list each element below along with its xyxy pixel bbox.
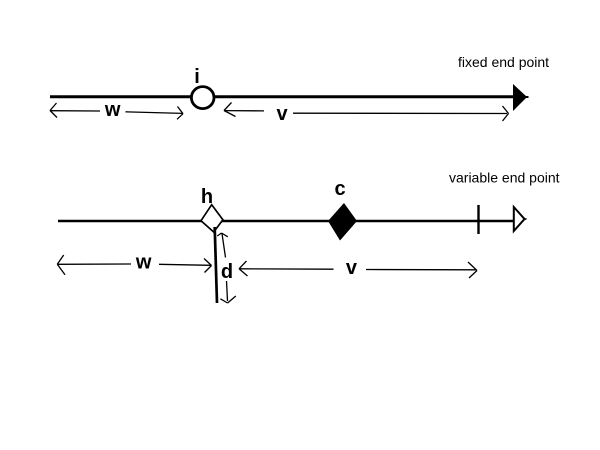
- svg-text:i: i: [194, 66, 200, 88]
- svg-text:c: c: [334, 178, 345, 200]
- svg-text:variable end point: variable end point: [449, 170, 560, 186]
- svg-text:v: v: [276, 103, 288, 125]
- svg-text:fixed end point: fixed end point: [458, 54, 549, 70]
- svg-text:v: v: [346, 257, 358, 279]
- svg-text:w: w: [104, 99, 121, 121]
- svg-text:d: d: [221, 261, 233, 283]
- svg-text:h: h: [201, 186, 213, 208]
- svg-text:w: w: [135, 252, 152, 274]
